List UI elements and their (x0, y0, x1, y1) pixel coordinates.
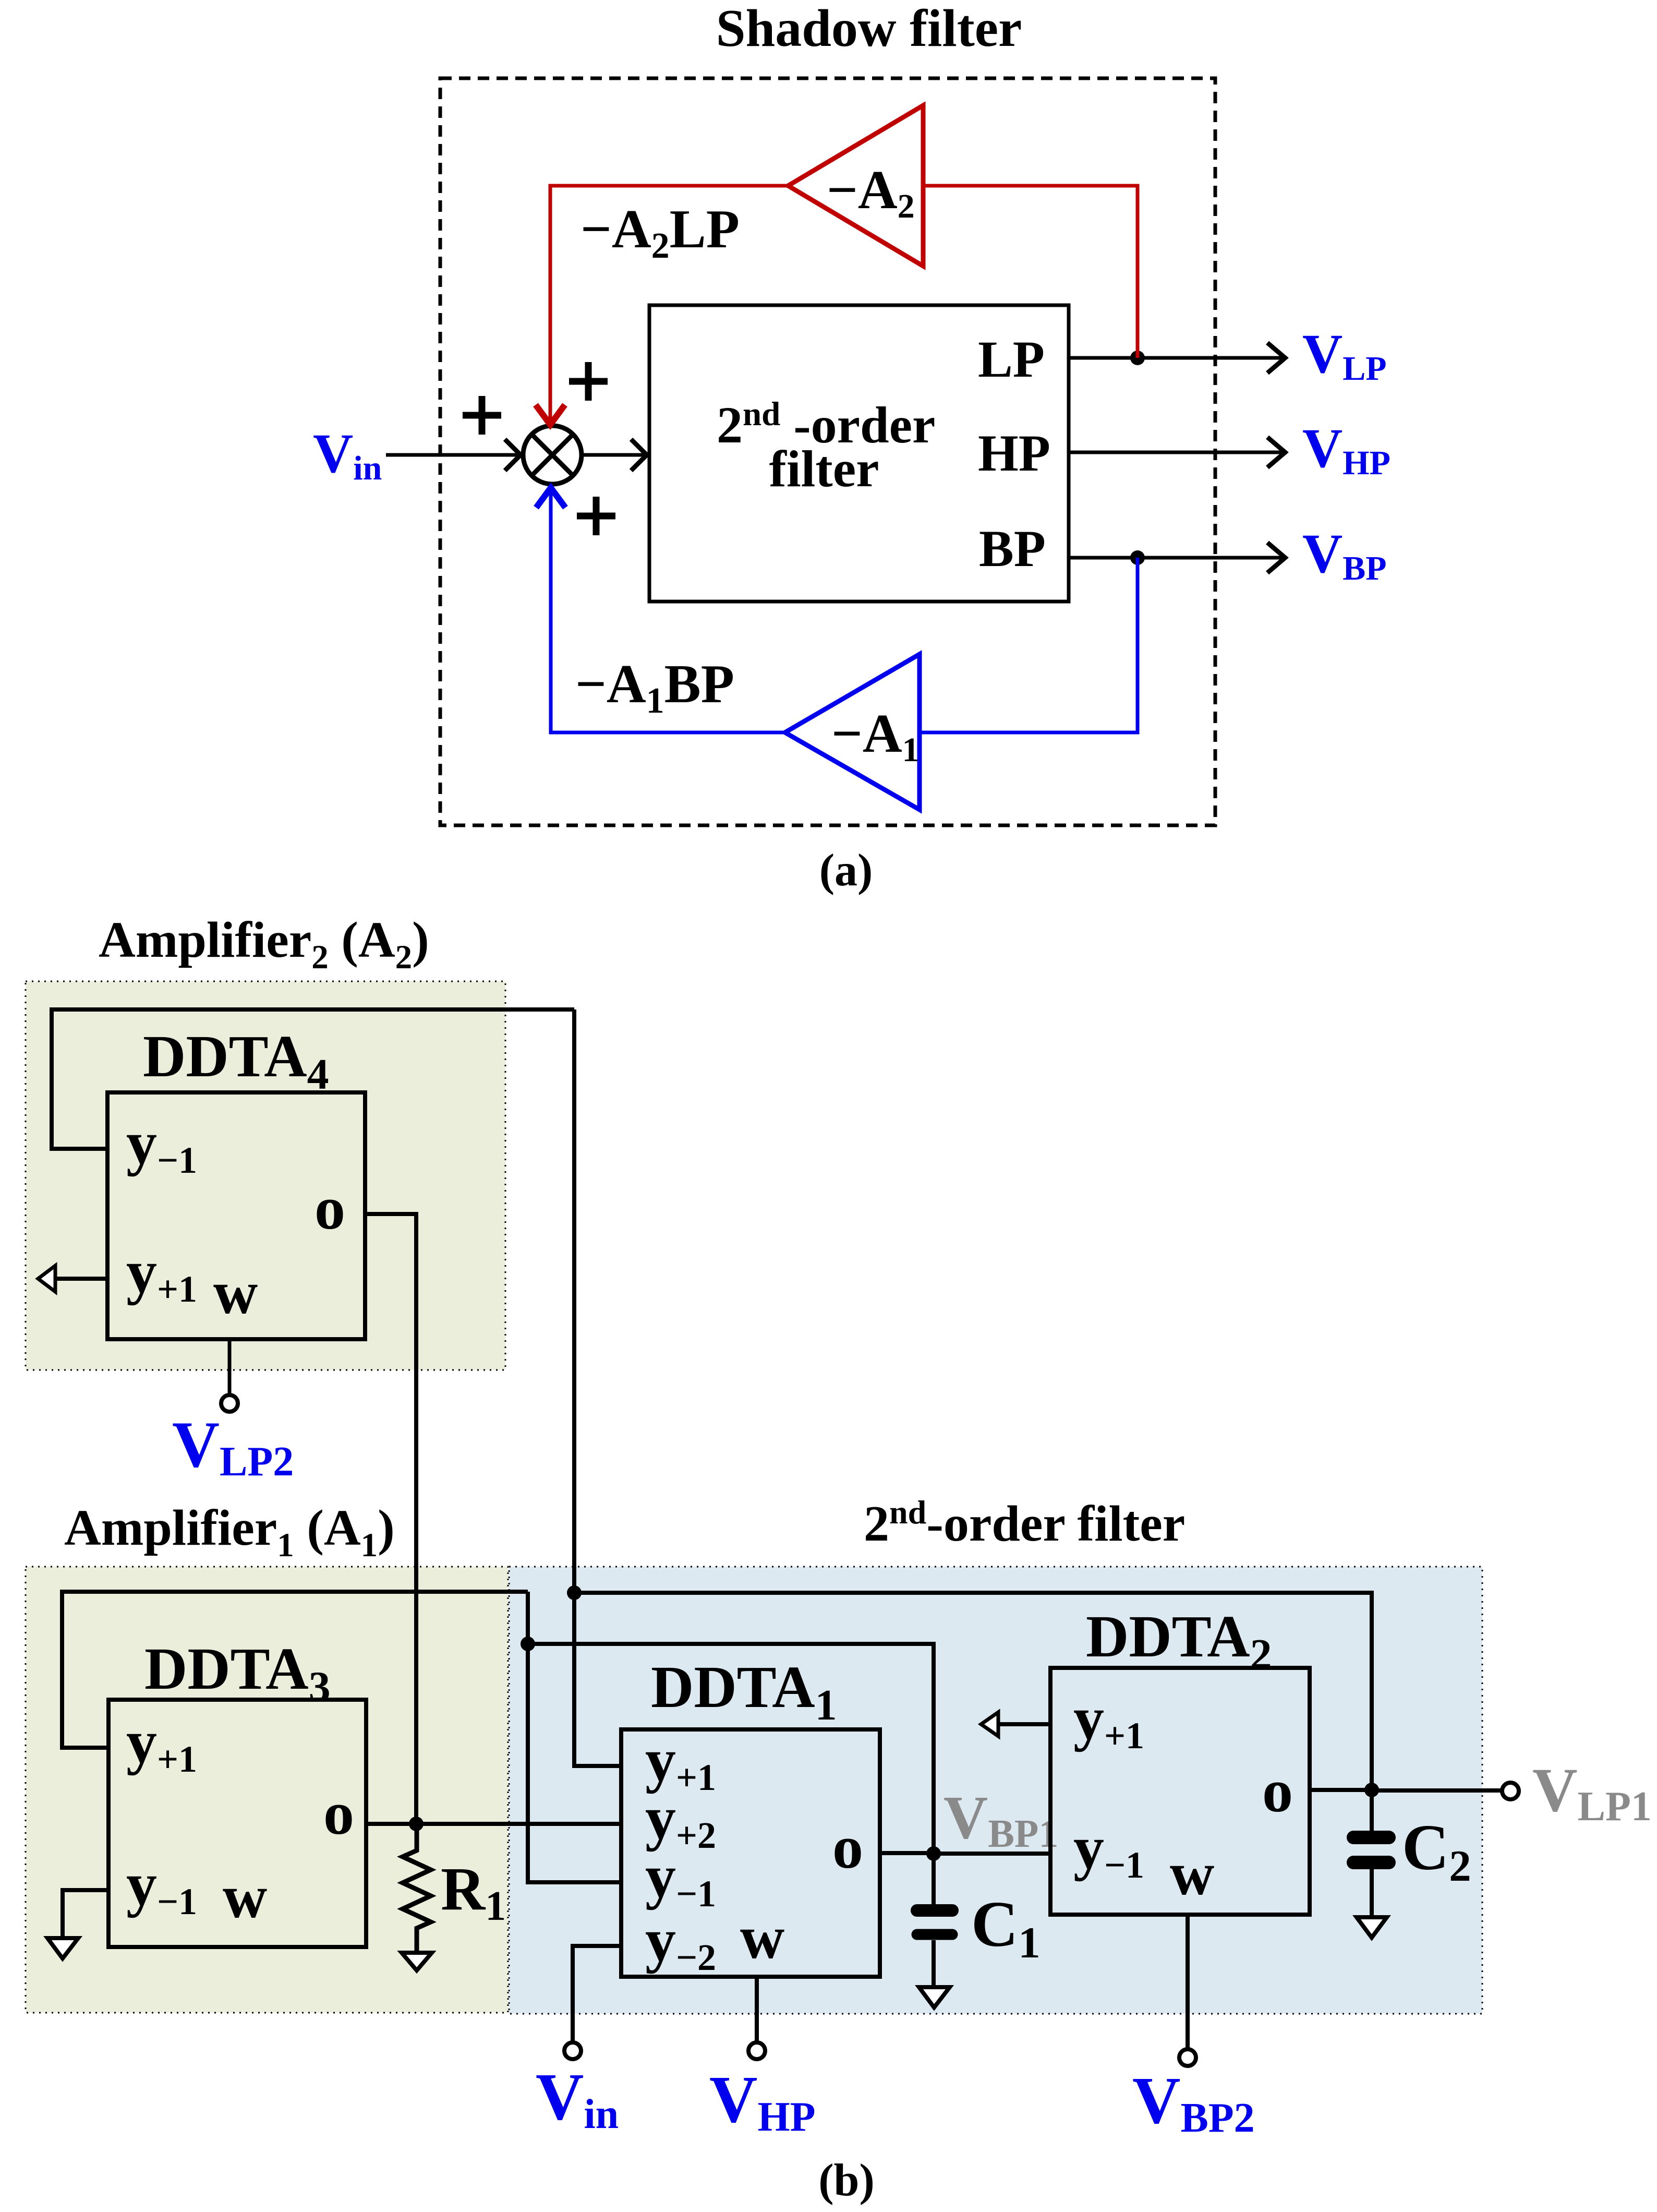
wire: A1 output to summing node (551, 489, 785, 732)
amplifier A2 (red triangle) (788, 105, 923, 266)
DDTA1 box (621, 1729, 880, 1977)
svg-text:BP: BP (979, 520, 1046, 578)
svg-text:w: w (1170, 1840, 1214, 1908)
svg-text:VLP: VLP (1302, 323, 1387, 388)
svg-text:Amplifier1 (A1): Amplifier1 (A1) (64, 1500, 395, 1564)
amplifier A1 (blue triangle) (785, 654, 920, 810)
svg-text:(b): (b) (818, 2155, 875, 2206)
junction dot (1101,3053) (567, 1585, 582, 1600)
DDTA4 box (107, 1092, 365, 1339)
wire: VBP1 node to DDTA2 y-1 (934, 1852, 1050, 1856)
svg-text:2nd-order filter: 2nd-order filter (864, 1494, 1185, 1552)
junction dot (798,3496) (409, 1817, 424, 1831)
svg-text:HP: HP (978, 424, 1050, 482)
svg-text:VBP2: VBP2 (1132, 2063, 1255, 2141)
svg-text:w: w (213, 1258, 258, 1327)
wire: DDTA4 y-1 feedback (net VLP1) top run (52, 1009, 574, 1149)
wire: HP output (1069, 451, 1284, 454)
plus sign (A1 input) (577, 513, 615, 520)
wire: DDTA1 o to VBP1 node (880, 1851, 934, 1855)
wire: DDTA4 o to vertical x=798 (365, 1214, 416, 1824)
wire: DDTA4 y+1 with open arrow (54, 1277, 107, 1281)
svg-text:VHP: VHP (1302, 418, 1390, 482)
wire: y=3053 branch to DDTA2 o node (574, 1593, 1372, 1790)
wire: DDTA1 w stem to VHP (755, 1977, 759, 2042)
svg-text:Shadow filter: Shadow filter (716, 0, 1022, 58)
svg-text:filter: filter (769, 440, 879, 498)
svg-text:−A1BP: −A1BP (575, 653, 734, 721)
svg-text:DDTA2: DDTA2 (1086, 1603, 1272, 1679)
wire: DDTA2 w stem to VBP2 (1186, 1915, 1190, 2049)
DDTA2 box (1050, 1668, 1310, 1915)
ground (C2) (1357, 1917, 1387, 1938)
2nd-order filter region (blue box) (509, 1567, 1482, 2014)
terminal VBP2 (1179, 2049, 1196, 2066)
wire: DDTA3 y+1 riser to top wire y=3051 (62, 1592, 528, 1748)
wire: DDTA2 y+1 with open arrow (997, 1722, 1050, 1726)
wire: LP output (1069, 356, 1284, 360)
svg-text:VHP: VHP (709, 2062, 816, 2140)
terminal Vin (564, 2042, 581, 2059)
wire: DDTA3 y-1 to ground (63, 1890, 108, 1936)
terminal VLP1 (1502, 1783, 1519, 1799)
svg-text:o: o (832, 1813, 863, 1881)
capacitor C1 (932, 1854, 936, 1905)
ground (R1) (402, 1953, 432, 1970)
wire: A2 output to summing node (550, 186, 788, 424)
svg-text:DDTA3: DDTA3 (144, 1636, 331, 1711)
resistor R1 (403, 1824, 431, 1951)
wire: vertical x=1101 from top run to DDTA1 y+1 (574, 1009, 621, 1766)
wire: DDTA2 o to VLP1 (1310, 1788, 1372, 1792)
svg-text:Vin: Vin (536, 2060, 619, 2137)
Amplifier2 region (olive box) (26, 981, 505, 1370)
wire: Vin terminal to DDTA1 y-2 (573, 1946, 621, 2043)
wire: DDTA4 w stem (228, 1339, 232, 1395)
svg-text:LP: LP (978, 330, 1045, 388)
svg-text:VBP: VBP (1302, 523, 1387, 587)
plus sign (Vin input) (463, 412, 501, 419)
wire: y=3151 branch to VBP1 node (528, 1644, 934, 1854)
junction dot (2630,3431) (1364, 1783, 1379, 1797)
svg-text:o: o (323, 1779, 354, 1847)
wire: blue feedback BP to A1 (922, 558, 1138, 732)
Amplifier1 region (olive box) (26, 1567, 508, 2013)
terminal VHP (748, 2042, 765, 2059)
wire: Vin to summing node (386, 453, 521, 457)
wire: red feedback LP to A2 (925, 186, 1138, 358)
svg-text:o: o (315, 1174, 345, 1242)
svg-text:VLP1: VLP1 (1532, 1755, 1652, 1830)
dashed border of shadow filter (440, 78, 1215, 825)
DDTA3 box (108, 1700, 366, 1947)
wire: BP output (1069, 556, 1284, 560)
ground (C1) (919, 1987, 950, 2007)
svg-text:o: o (1262, 1757, 1293, 1825)
svg-text:w: w (223, 1862, 267, 1931)
svg-text:w: w (740, 1903, 784, 1971)
junction dot on LP line (1130, 351, 1145, 365)
wire: vertical x=1012 down to DDTA1 y-1 (528, 1592, 621, 1882)
capacitor C2 (1370, 1790, 1374, 1832)
terminal VLP2 (221, 1395, 238, 1412)
svg-text:DDTA4: DDTA4 (143, 1023, 329, 1099)
wire: summing node to filter input (582, 453, 647, 457)
ground (DDTA3 y-1) (47, 1938, 78, 1958)
svg-text:Vin: Vin (313, 423, 382, 487)
svg-text:−A2LP: −A2LP (580, 198, 740, 266)
svg-text:(a): (a) (819, 845, 873, 896)
plus sign (A2 input) (569, 378, 608, 385)
2nd-order filter box (649, 305, 1069, 602)
svg-text:Amplifier2 (A2): Amplifier2 (A2) (99, 912, 429, 976)
svg-text:VLP2: VLP2 (172, 1409, 294, 1485)
junction dot (1012,3151) (521, 1637, 535, 1651)
junction dot on BP line (1130, 550, 1145, 565)
junction dot VBP1 (1790,3553) (926, 1846, 941, 1861)
wire: DDTA3 o to DDTA1 y+2 (366, 1822, 621, 1826)
svg-text:DDTA1: DDTA1 (651, 1654, 837, 1729)
summing node (523, 426, 582, 484)
